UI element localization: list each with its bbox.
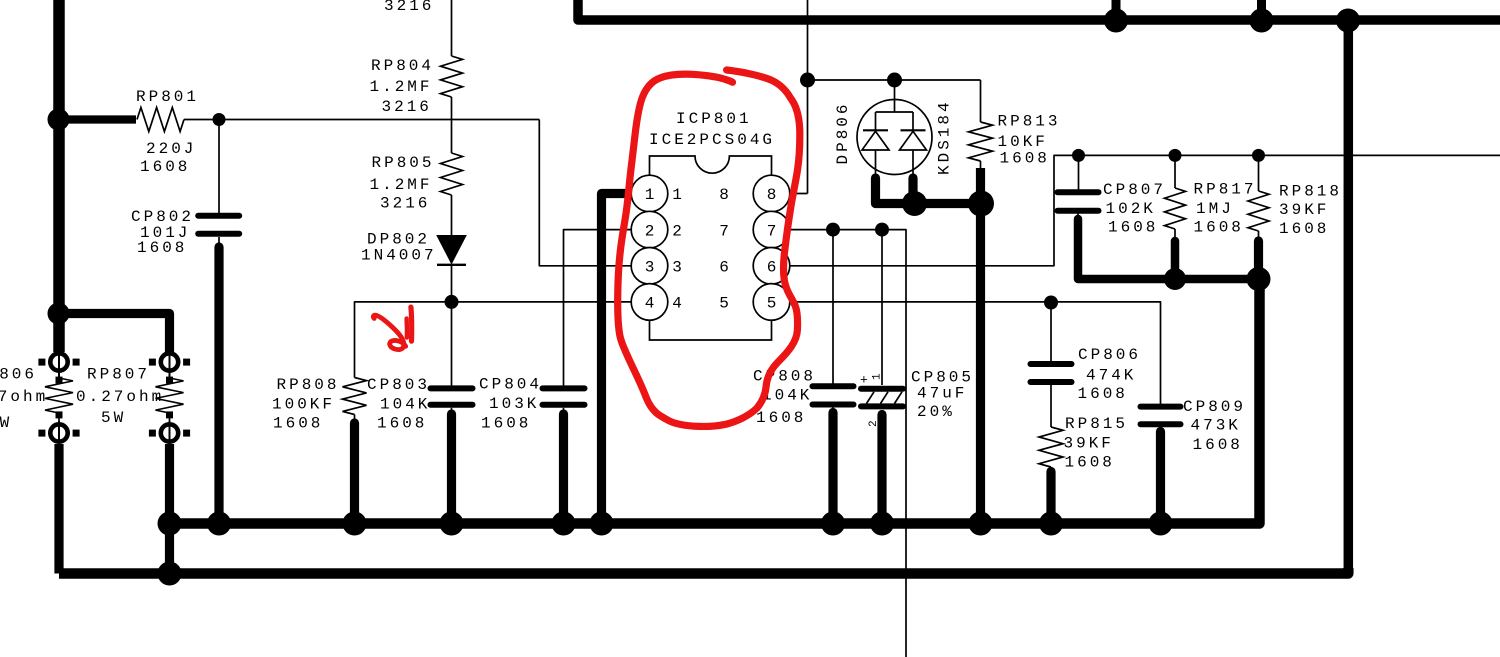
wire RP818 node down to mid bus corner <box>1259 278 1260 280</box>
wire RP808 to mid bus <box>354 415 356 424</box>
resistor RP813 <box>969 122 993 161</box>
svg-text:7: 7 <box>767 222 777 240</box>
wire RP818 top lead <box>1258 155 1260 191</box>
node top bus 2 <box>1250 9 1274 33</box>
svg-text:4: 4 <box>672 295 682 313</box>
capacitor CP803 <box>431 385 473 391</box>
wire DP802 cathode to pin4 net <box>451 265 453 302</box>
svg-text:1608: 1608 <box>273 414 323 432</box>
resistor RP817 <box>1165 188 1186 229</box>
node RP813 bottom <box>968 191 994 217</box>
svg-text:1608: 1608 <box>1000 150 1050 168</box>
svg-text:CP809: CP809 <box>1183 398 1246 416</box>
wire bottom bus <box>59 568 1348 574</box>
wire left vertical bus <box>53 0 65 352</box>
node top bus 1 <box>1104 9 1128 33</box>
node mid-bus x354 <box>343 512 367 536</box>
node pin7/CP808 <box>826 223 840 237</box>
resistor RP807 0.27ohm 5W <box>169 351 171 378</box>
svg-text:102K: 102K <box>1106 200 1156 218</box>
svg-text:RP807: RP807 <box>87 366 150 384</box>
red marker loop around ICP801 <box>618 70 800 426</box>
svg-text:47uF: 47uF <box>917 385 967 403</box>
pin 5 circle of ICP801 <box>753 284 790 321</box>
capacitor CP807 <box>1058 189 1099 195</box>
svg-text:0.27ohm: 0.27ohm <box>0 388 48 406</box>
wire top lead of RP804 chain <box>451 0 453 56</box>
svg-text:1N4007: 1N4007 <box>361 247 437 265</box>
wire DP806 left anode elbow <box>876 178 916 204</box>
pin 6 circle of ICP801 <box>753 247 790 284</box>
node mid-bus x169 <box>158 512 182 536</box>
svg-text:220J: 220J <box>146 140 196 158</box>
node RP818 bottom <box>1247 267 1271 291</box>
svg-text:1608: 1608 <box>1194 219 1244 237</box>
wire RP813 top lead <box>980 80 982 122</box>
svg-text:103K: 103K <box>489 395 539 413</box>
resistor RP804 <box>441 56 463 97</box>
svg-text:1608: 1608 <box>1193 436 1243 454</box>
svg-text:RP808: RP808 <box>277 376 340 394</box>
node mid-bus x833 <box>821 512 845 536</box>
svg-text:1608: 1608 <box>137 239 187 257</box>
wire anode net to RP813 <box>915 199 981 208</box>
svg-text:5: 5 <box>719 295 729 313</box>
resistor RP818 <box>1248 191 1269 231</box>
svg-text:CP806: CP806 <box>1078 346 1141 364</box>
svg-text:1.2MF: 1.2MF <box>370 78 433 96</box>
pin 4 circle of ICP801 <box>631 284 668 321</box>
svg-text:2: 2 <box>645 222 655 240</box>
wire RP817 bottom stub <box>1174 229 1176 240</box>
node mid-bus x601 <box>590 512 614 536</box>
wire CP805 top lead <box>881 230 883 385</box>
node junction left-bus/RP801 <box>48 109 70 131</box>
svg-text:5W: 5W <box>0 414 12 432</box>
wire right vertical bus <box>1344 20 1354 574</box>
svg-text:RP813: RP813 <box>998 113 1061 131</box>
svg-text:3: 3 <box>672 259 682 277</box>
svg-text:1608: 1608 <box>1108 219 1158 237</box>
capacitor CP805 electrolytic <box>861 386 903 392</box>
svg-text:RP801: RP801 <box>136 88 199 106</box>
svg-text:10KF: 10KF <box>998 133 1048 151</box>
svg-text:3216: 3216 <box>382 98 432 116</box>
svg-text:1: 1 <box>872 373 884 380</box>
node net155/RP818 <box>1252 149 1265 162</box>
node left-bus/RP807 branch <box>48 303 70 325</box>
svg-text:20%: 20% <box>917 403 955 421</box>
capacitor CP808 <box>813 383 854 389</box>
node net155/RP817 <box>1169 149 1182 162</box>
wire pin8 stub <box>790 193 808 195</box>
svg-text:4: 4 <box>645 295 655 313</box>
wire pin7 net <box>790 230 906 657</box>
svg-text:1MJ: 1MJ <box>1196 200 1234 218</box>
wire RP815 to mid bus <box>1050 467 1052 472</box>
wire CP806 top lead <box>1050 302 1052 361</box>
node DP806 anodes <box>902 191 927 216</box>
svg-text:1608: 1608 <box>1065 454 1115 472</box>
svg-text:RP818: RP818 <box>1279 183 1342 201</box>
svg-text:1608: 1608 <box>1279 220 1329 238</box>
capacitor CP804 <box>543 385 585 391</box>
pin 7 circle of ICP801 <box>753 211 790 248</box>
svg-text:RP815: RP815 <box>1065 415 1128 433</box>
wire RP801 to node <box>184 119 219 121</box>
svg-text:104K: 104K <box>380 395 430 413</box>
capacitor CP802 <box>198 213 239 219</box>
resistor RP808 <box>343 378 367 415</box>
node bottom bus RP807 <box>158 562 182 586</box>
diode DP802 1N4007 <box>437 236 466 264</box>
wire CP804 to mid bus <box>563 408 565 414</box>
wire pin2 net to CP804 <box>564 230 632 386</box>
wire CP809 to mid bus <box>1160 427 1162 431</box>
svg-text:1608: 1608 <box>756 409 806 427</box>
svg-text:104K: 104K <box>762 386 812 404</box>
resistor RP806 0.27ohm 5W <box>58 351 60 378</box>
wire mid GND bus <box>170 279 1260 524</box>
svg-text:RP804: RP804 <box>371 57 434 75</box>
wire RP818 bottom stub <box>1258 231 1260 240</box>
node top bus right corner <box>1336 9 1360 33</box>
svg-text:RP817: RP817 <box>1194 181 1257 199</box>
svg-text:+: + <box>860 373 868 388</box>
node pin8 net / DP806 <box>800 73 815 88</box>
svg-text:474K: 474K <box>1086 366 1136 384</box>
svg-text:5: 5 <box>767 295 777 313</box>
svg-text:39KF: 39KF <box>1279 201 1329 219</box>
node mid-bus x1160 <box>1149 512 1173 536</box>
node mid-bus x563 <box>552 512 576 536</box>
svg-text:0.27ohm: 0.27ohm <box>76 388 164 406</box>
wire pin1 thick stub and riser to mid bus <box>602 194 632 525</box>
node net155/CP807 <box>1072 149 1085 162</box>
wire pin8 vertical from top <box>807 0 809 194</box>
resistor RP801 <box>137 108 184 132</box>
svg-text:KDS184: KDS184 <box>936 99 954 175</box>
svg-text:1608: 1608 <box>140 158 190 176</box>
wire CP802 down to GND bus <box>218 237 220 247</box>
svg-text:DP806: DP806 <box>834 101 852 164</box>
wire RP804 to RP805 <box>451 97 453 153</box>
svg-text:RP806: RP806 <box>0 366 37 384</box>
svg-text:CP804: CP804 <box>479 376 542 394</box>
pin 2 circle of ICP801 <box>631 211 668 248</box>
svg-text:1.2MF: 1.2MF <box>370 176 433 194</box>
wire branch to RP807 <box>59 314 170 353</box>
pin 1 circle of ICP801 <box>631 175 668 212</box>
pin 3 circle of ICP801 <box>631 247 668 284</box>
node pin5/CP806 <box>1044 296 1058 310</box>
wire thick stub to RP801 <box>53 115 136 123</box>
node DP806 top <box>887 73 902 88</box>
node mid-bus x1051 <box>1039 512 1063 536</box>
capacitor CP809 <box>1141 404 1181 410</box>
node DP802/pin4 net <box>445 295 459 309</box>
resistor RP805 <box>441 153 463 195</box>
wire CP807 top lead <box>1078 155 1080 190</box>
svg-text:5W: 5W <box>101 409 126 427</box>
node mid-bus x451 <box>440 512 464 536</box>
svg-text:CP808: CP808 <box>753 368 816 386</box>
wire CP803 to mid bus <box>451 408 453 414</box>
svg-text:ICE2PCS04G: ICE2PCS04G <box>649 131 775 149</box>
wire RP806 bottom to bottom bus <box>54 444 63 574</box>
wire top thick bus <box>578 0 1500 20</box>
wire RP805 to DP802 <box>451 195 453 236</box>
wire CP808 to mid bus <box>832 408 834 413</box>
wire CP803 top lead <box>451 302 453 386</box>
wire RP813 bottom stub <box>980 161 982 168</box>
svg-text:RP805: RP805 <box>372 154 435 172</box>
wire pin5 net <box>790 302 1161 404</box>
node mid-bus x980 <box>969 512 993 536</box>
wire pin6 net <box>790 155 1500 265</box>
node mid-bus x882 <box>870 512 894 536</box>
svg-text:CP807: CP807 <box>1103 181 1166 199</box>
pin 8 circle of ICP801 <box>753 175 790 212</box>
svg-text:1: 1 <box>645 186 655 204</box>
node RP801/CP802/pin3 net <box>213 113 226 126</box>
svg-text:1608: 1608 <box>1078 385 1128 403</box>
capacitor CP806 <box>1031 361 1072 367</box>
svg-text:ICP801: ICP801 <box>676 110 752 128</box>
svg-text:39KF: 39KF <box>1064 435 1114 453</box>
svg-text:6: 6 <box>719 259 729 277</box>
svg-text:1: 1 <box>672 186 682 204</box>
svg-text:8: 8 <box>767 186 777 204</box>
svg-text:1608: 1608 <box>481 414 531 432</box>
wire RP817 top lead <box>1174 155 1176 188</box>
wire net y80 <box>808 79 981 81</box>
svg-text:8: 8 <box>719 186 729 204</box>
wire RP807 bottom to mid bus <box>165 444 174 524</box>
node mid-bus x219 <box>207 512 231 536</box>
svg-text:6: 6 <box>767 259 777 277</box>
wire CP802 top lead <box>218 120 220 215</box>
wire RP813 node down to mid bus <box>976 204 985 525</box>
node CP807/RP817 bottom <box>1164 268 1186 290</box>
wire CP805 to mid bus <box>877 415 886 525</box>
wire RP807 mid-bus to bottom-bus link <box>165 524 174 574</box>
wire CP806 to RP815 <box>1050 385 1052 428</box>
wire CP807 bottom elbow <box>1077 214 1079 220</box>
svg-text:7: 7 <box>719 222 729 240</box>
red marker scribble near RP808 <box>373 315 405 349</box>
diode DP806 KDS184 <box>857 100 932 175</box>
resistor RP815 <box>1039 427 1063 467</box>
svg-text:1608: 1608 <box>377 414 427 432</box>
svg-text:2: 2 <box>672 222 682 240</box>
wire net y119 to pin3 riser <box>219 119 539 121</box>
svg-text:CP803: CP803 <box>367 376 430 394</box>
svg-text:3216: 3216 <box>384 0 434 15</box>
wire CP808 top lead <box>832 230 834 386</box>
node pin7/CP805 <box>875 223 889 237</box>
svg-text:3: 3 <box>645 259 655 277</box>
svg-text:100KF: 100KF <box>272 395 335 413</box>
wire DP806 right anode stub <box>908 178 917 204</box>
wire pin3 riser and lead <box>539 120 631 266</box>
wire pin4 net <box>355 302 632 378</box>
svg-text:473K: 473K <box>1191 417 1241 435</box>
svg-text:3216: 3216 <box>380 195 430 213</box>
op-amp U ICP801 ICE2PCS04G body <box>650 156 772 340</box>
